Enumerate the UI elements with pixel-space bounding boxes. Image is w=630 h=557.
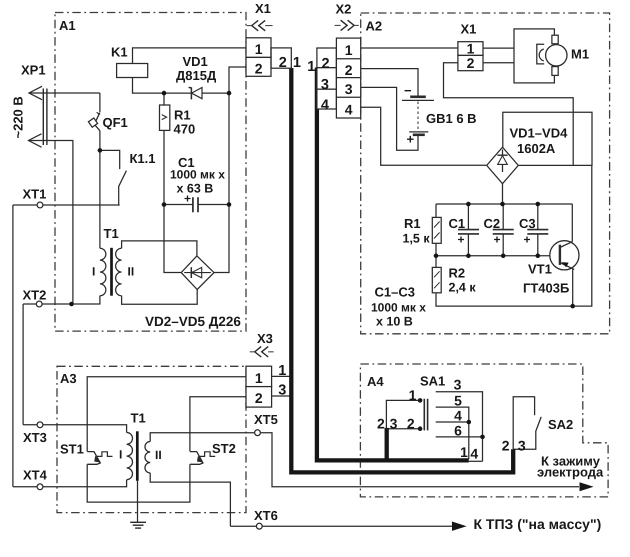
node SA1 wiper 1 [418,398,423,403]
zener diode VD1 [189,87,202,99]
resistor R2 2.4k [432,267,441,292]
wire XP1 top line to QF1 [29,92,100,94]
wire XT2 rail down to XT3 [22,304,24,425]
connector X1 A1 [246,20,291,76]
svg-text:1: 1 [345,42,353,58]
wire K1 coil bottom lead to node [133,78,165,94]
svg-text:Х1: Х1 [255,1,271,16]
wire X3 pin1 line with ST1 riser [87,377,246,452]
svg-text:470: 470 [174,122,196,137]
svg-text:5: 5 [454,393,462,409]
wire C1.A2 leads [467,204,469,256]
svg-text:I: I [119,448,122,462]
resistor R1 470 [160,105,170,130]
svg-text:2: 2 [322,56,330,72]
svg-text:3: 3 [390,416,398,432]
wire SA1 contact row 6 [436,436,483,438]
svg-text:ST2: ST2 [212,441,236,456]
wire R1 top lead [163,93,165,105]
ground symbol [130,522,146,528]
wire bottom rail to right riser [436,165,592,306]
wire node down to bridge left corner [164,205,181,273]
node base rail C1 junction [466,254,471,259]
svg-text:R1: R1 [174,108,191,123]
wire SA1 bottom tie [469,460,483,462]
wire C2.A2 leads [502,204,504,256]
wire plus rail [436,203,572,205]
svg-text:+: + [407,132,415,147]
transformer T1 A1 [100,248,122,296]
svg-text:A3: A3 [60,371,77,386]
svg-text:K1: K1 [111,45,128,60]
wire VD1 node line right [202,92,229,94]
svg-text:A1: A1 [59,18,76,33]
svg-text:1: 1 [255,370,263,386]
svg-text:2: 2 [502,437,510,453]
svg-text:1000 мк х: 1000 мк х [170,168,225,182]
node SA1 row6 junction [480,435,485,440]
arrow to TPZ ground [452,522,467,531]
terminal XT2 [36,301,42,307]
svg-text:К ТПЗ ("на массу"): К ТПЗ ("на массу") [474,516,602,532]
wire X1.A2 pin1 to motor frame [483,47,514,49]
svg-text:A4: A4 [367,374,384,389]
svg-text:6: 6 [454,422,462,438]
resistor R1 1.5k [432,217,441,243]
wire VD1 node line left [164,92,191,94]
svg-text:4: 4 [470,446,478,462]
wire SA1 wiper fork [386,400,420,428]
wire SA1 contact row 4 [436,421,469,423]
wire VT1 collector lead [571,204,573,242]
switch SA2 lever [536,417,541,431]
svg-text:XP1: XP1 [21,63,46,78]
svg-text:ST1: ST1 [60,442,84,457]
node QF1-K1.1 junction [98,148,103,153]
capacitor C1 A2 [458,230,479,234]
connector X1 A2 [458,42,483,71]
svg-text:4: 4 [345,101,353,117]
transistor VT1 [550,241,579,270]
wire SA1 contact row 5 [436,407,469,459]
svg-text:1: 1 [255,41,263,57]
wire weld circuit 1 thick X1 to SA2 [291,68,513,472]
svg-text:4: 4 [454,407,462,423]
node plus rail C3 junction [536,202,541,207]
wire SA1 wiper thick riser [385,428,389,461]
wire X3 pin2 line with ST2 riser [190,397,246,452]
svg-text:R1: R1 [404,216,421,231]
connector X3 [246,347,274,408]
node base rail C2 junction [501,254,506,259]
svg-text:1: 1 [307,59,315,75]
wire XT6 line [230,525,453,527]
svg-text:R2: R2 [449,266,466,281]
wire weld circuit 2 thick X2 to SA1 [317,68,469,461]
wire XP1 bottom line [29,141,73,305]
terminal XT4 [37,484,43,490]
thermal contact ST1 [87,452,112,465]
svg-text:ХТ1: ХТ1 [23,187,47,202]
relay coil K1 [117,64,148,78]
wire XT1 line [13,204,120,206]
node base rail C3 junction [536,254,541,259]
wire R1.A2 bottom to R2.A2 top [435,243,437,267]
transformer T1 A3 [127,431,151,481]
block A1 border [55,13,246,332]
svg-text:С2: С2 [484,216,501,231]
svg-text:1: 1 [409,387,417,403]
wire R1.A2 top lead [435,204,437,217]
svg-text:1: 1 [278,363,286,379]
svg-text:VD1: VD1 [183,54,208,69]
terminal XT3 [37,422,43,428]
svg-text:ХТ3: ХТ3 [23,430,47,445]
svg-text:VD1–VD4: VD1–VD4 [510,126,569,141]
svg-text:3: 3 [278,382,286,398]
bridge rectifier VD2-VD5 [181,256,214,290]
svg-text:Х3: Х3 [257,331,273,346]
wire XT2 line to T1 primary bottom [23,296,100,304]
capacitor C3 A2 [527,230,548,234]
svg-text:ГТ403Б: ГТ403Б [523,281,569,296]
svg-text:GB1 6 В: GB1 6 В [426,111,477,126]
svg-text:II: II [155,448,162,462]
wire T1.A3 secondary top to XT5 [150,433,579,487]
wire R1 bottom lead [163,130,165,204]
connector X2 [317,20,361,118]
svg-text:1: 1 [467,40,475,56]
svg-text:3: 3 [454,377,462,393]
wire X2 pin2 to GB1 top [361,69,418,97]
svg-text:х 10 В: х 10 В [376,315,413,329]
node plus rail C1 junction [466,202,471,207]
wire K1.1 lower branch [118,186,120,205]
node VD1-R1 junction [162,91,167,96]
svg-text:1: 1 [293,55,301,71]
node VD1-X1 junction [227,91,232,96]
block A2 border [361,13,610,334]
node C1 row left junction [162,202,167,207]
wire base rail [436,255,560,257]
svg-text:С3: С3 [519,216,536,231]
wire bridge bottom corner to plus rail [502,184,504,204]
node emitter junction [570,304,575,309]
svg-text:3: 3 [518,437,526,453]
wire C1 row right [198,204,229,206]
svg-text:С1: С1 [449,216,466,231]
svg-text:4: 4 [321,98,329,114]
battery GB1 [402,97,434,135]
wire T1 secondary bottom to bridge bottom [122,290,198,305]
svg-text:1000 мк х: 1000 мк х [371,301,426,315]
svg-text:Х2: Х2 [336,2,352,17]
node C1 row right junction [227,202,232,207]
svg-text:SA1: SA1 [420,374,445,389]
node plus rail bridge junction [500,202,505,207]
svg-text:2: 2 [345,62,353,78]
svg-text:2: 2 [407,416,415,432]
svg-text:2,4 к: 2,4 к [449,281,477,295]
wire K1.1 upper branch [100,150,120,169]
wire ST2 bottom riser [189,464,191,482]
svg-text:электрода: электрода [537,465,604,480]
relay contact K1.1 lever [119,171,127,187]
wire X1.A2 pin2 to bridge right side [444,63,574,166]
svg-text:3: 3 [345,81,353,97]
svg-text:1,5 к: 1,5 к [403,232,431,246]
svg-text:I: I [92,265,95,279]
terminal XT5 [255,430,261,436]
wire T1.A3 core ground stem [137,481,139,523]
node XT2-XP1 junction [69,302,74,307]
wire T1 secondary top to bridge top [122,241,197,256]
wire XT4 line to T1.A3 primary bottom [13,480,127,487]
svg-text:VT1: VT1 [528,262,552,277]
svg-text:Х1: Х1 [461,22,477,37]
wire QF1 upper lead [99,93,101,112]
wire SA1 contact row 3 [436,392,483,462]
wire XT3 line to T1.A3 primary top [23,425,127,433]
motor M1 [514,29,567,83]
terminal XT1 [37,202,43,208]
svg-text:К1.1: К1.1 [130,151,156,166]
wire QF1 node down to T1 primary top [99,150,101,248]
svg-text:+: + [494,233,501,247]
capacitor C2 A2 [493,230,514,234]
svg-text:−: − [404,83,412,98]
wire SA2 loop [513,397,536,449]
arrow to electrode clamp [580,482,594,491]
svg-text:+: + [524,233,531,247]
svg-text:С1–С3: С1–С3 [375,285,415,300]
svg-text:A2: A2 [366,19,383,34]
svg-text:2: 2 [279,55,287,71]
svg-text:2: 2 [377,416,385,432]
wire C3.A2 leads [537,204,539,256]
wire node down to bridge right corner [214,93,229,272]
terminal XT6 [256,523,262,529]
block A3 border [57,366,246,512]
svg-text:Д815Д: Д815Д [176,68,217,83]
svg-text:VD2–VD5 Д226: VD2–VD5 Д226 [145,314,241,329]
svg-text:2: 2 [467,55,475,71]
svg-text:2: 2 [255,390,263,406]
wire left rail XT1 to XT4 [12,205,14,487]
wire C1 row left [164,204,193,206]
svg-text:~220 В: ~220 В [11,96,26,138]
svg-text:1: 1 [460,444,468,460]
svg-text:II: II [128,265,135,279]
svg-text:ХТ5: ХТ5 [254,412,278,427]
svg-text:2: 2 [255,60,263,76]
block A4 border [360,364,608,497]
svg-text:1602А: 1602А [517,141,556,156]
switch SA1 wafer bars [424,399,427,431]
capacitor C1 1000uF 63V [193,197,198,212]
svg-text:Т1: Т1 [104,226,119,241]
svg-text:ХТ6: ХТ6 [254,508,278,523]
node SA1 row4 junction [467,420,472,425]
wire K1 coil top lead to X1 pin1 [133,48,247,64]
svg-text:3: 3 [321,77,329,93]
svg-text:Т1: Т1 [131,411,146,426]
svg-text:ХТ2: ХТ2 [23,288,47,303]
svg-text:М1: М1 [571,47,589,62]
wire X2 pin1 to X1.A2 pin1 [361,47,458,49]
node SA1 wiper 2 [418,426,423,431]
connector XP1 plug [29,86,47,147]
svg-text:ХТ4: ХТ4 [23,468,48,483]
node base rail R junction [434,254,439,259]
wire ST1 bottom riser and bottom loop [87,464,190,502]
svg-text:х 63 В: х 63 В [177,182,214,196]
wire QF1 lower lead to node [99,131,101,151]
wire X3 pin1 stub to weld line [272,375,292,377]
svg-text:+: + [458,233,465,247]
thermal contact ST2 [190,452,215,465]
wire X1.A2 pin2 to motor frame [483,62,514,64]
breaker QF1 [88,112,99,130]
wire X3 pin2 stub to weld line [272,395,292,397]
svg-text:SA2: SA2 [548,417,573,432]
wire VD1-VD4 label box outline [503,112,592,165]
svg-text:QF1: QF1 [103,115,128,130]
bridge rectifier VD1-VD4 [487,147,519,184]
wire X2 pin3 to GB1 bottom [361,87,418,150]
wire T1.A3 secondary bottom node row [150,473,230,526]
wire VT1 emitter drop [572,269,574,306]
wire X1 pin2 elbow down [229,67,246,93]
wire X2 pin4 to bridge left corner [361,107,487,165]
